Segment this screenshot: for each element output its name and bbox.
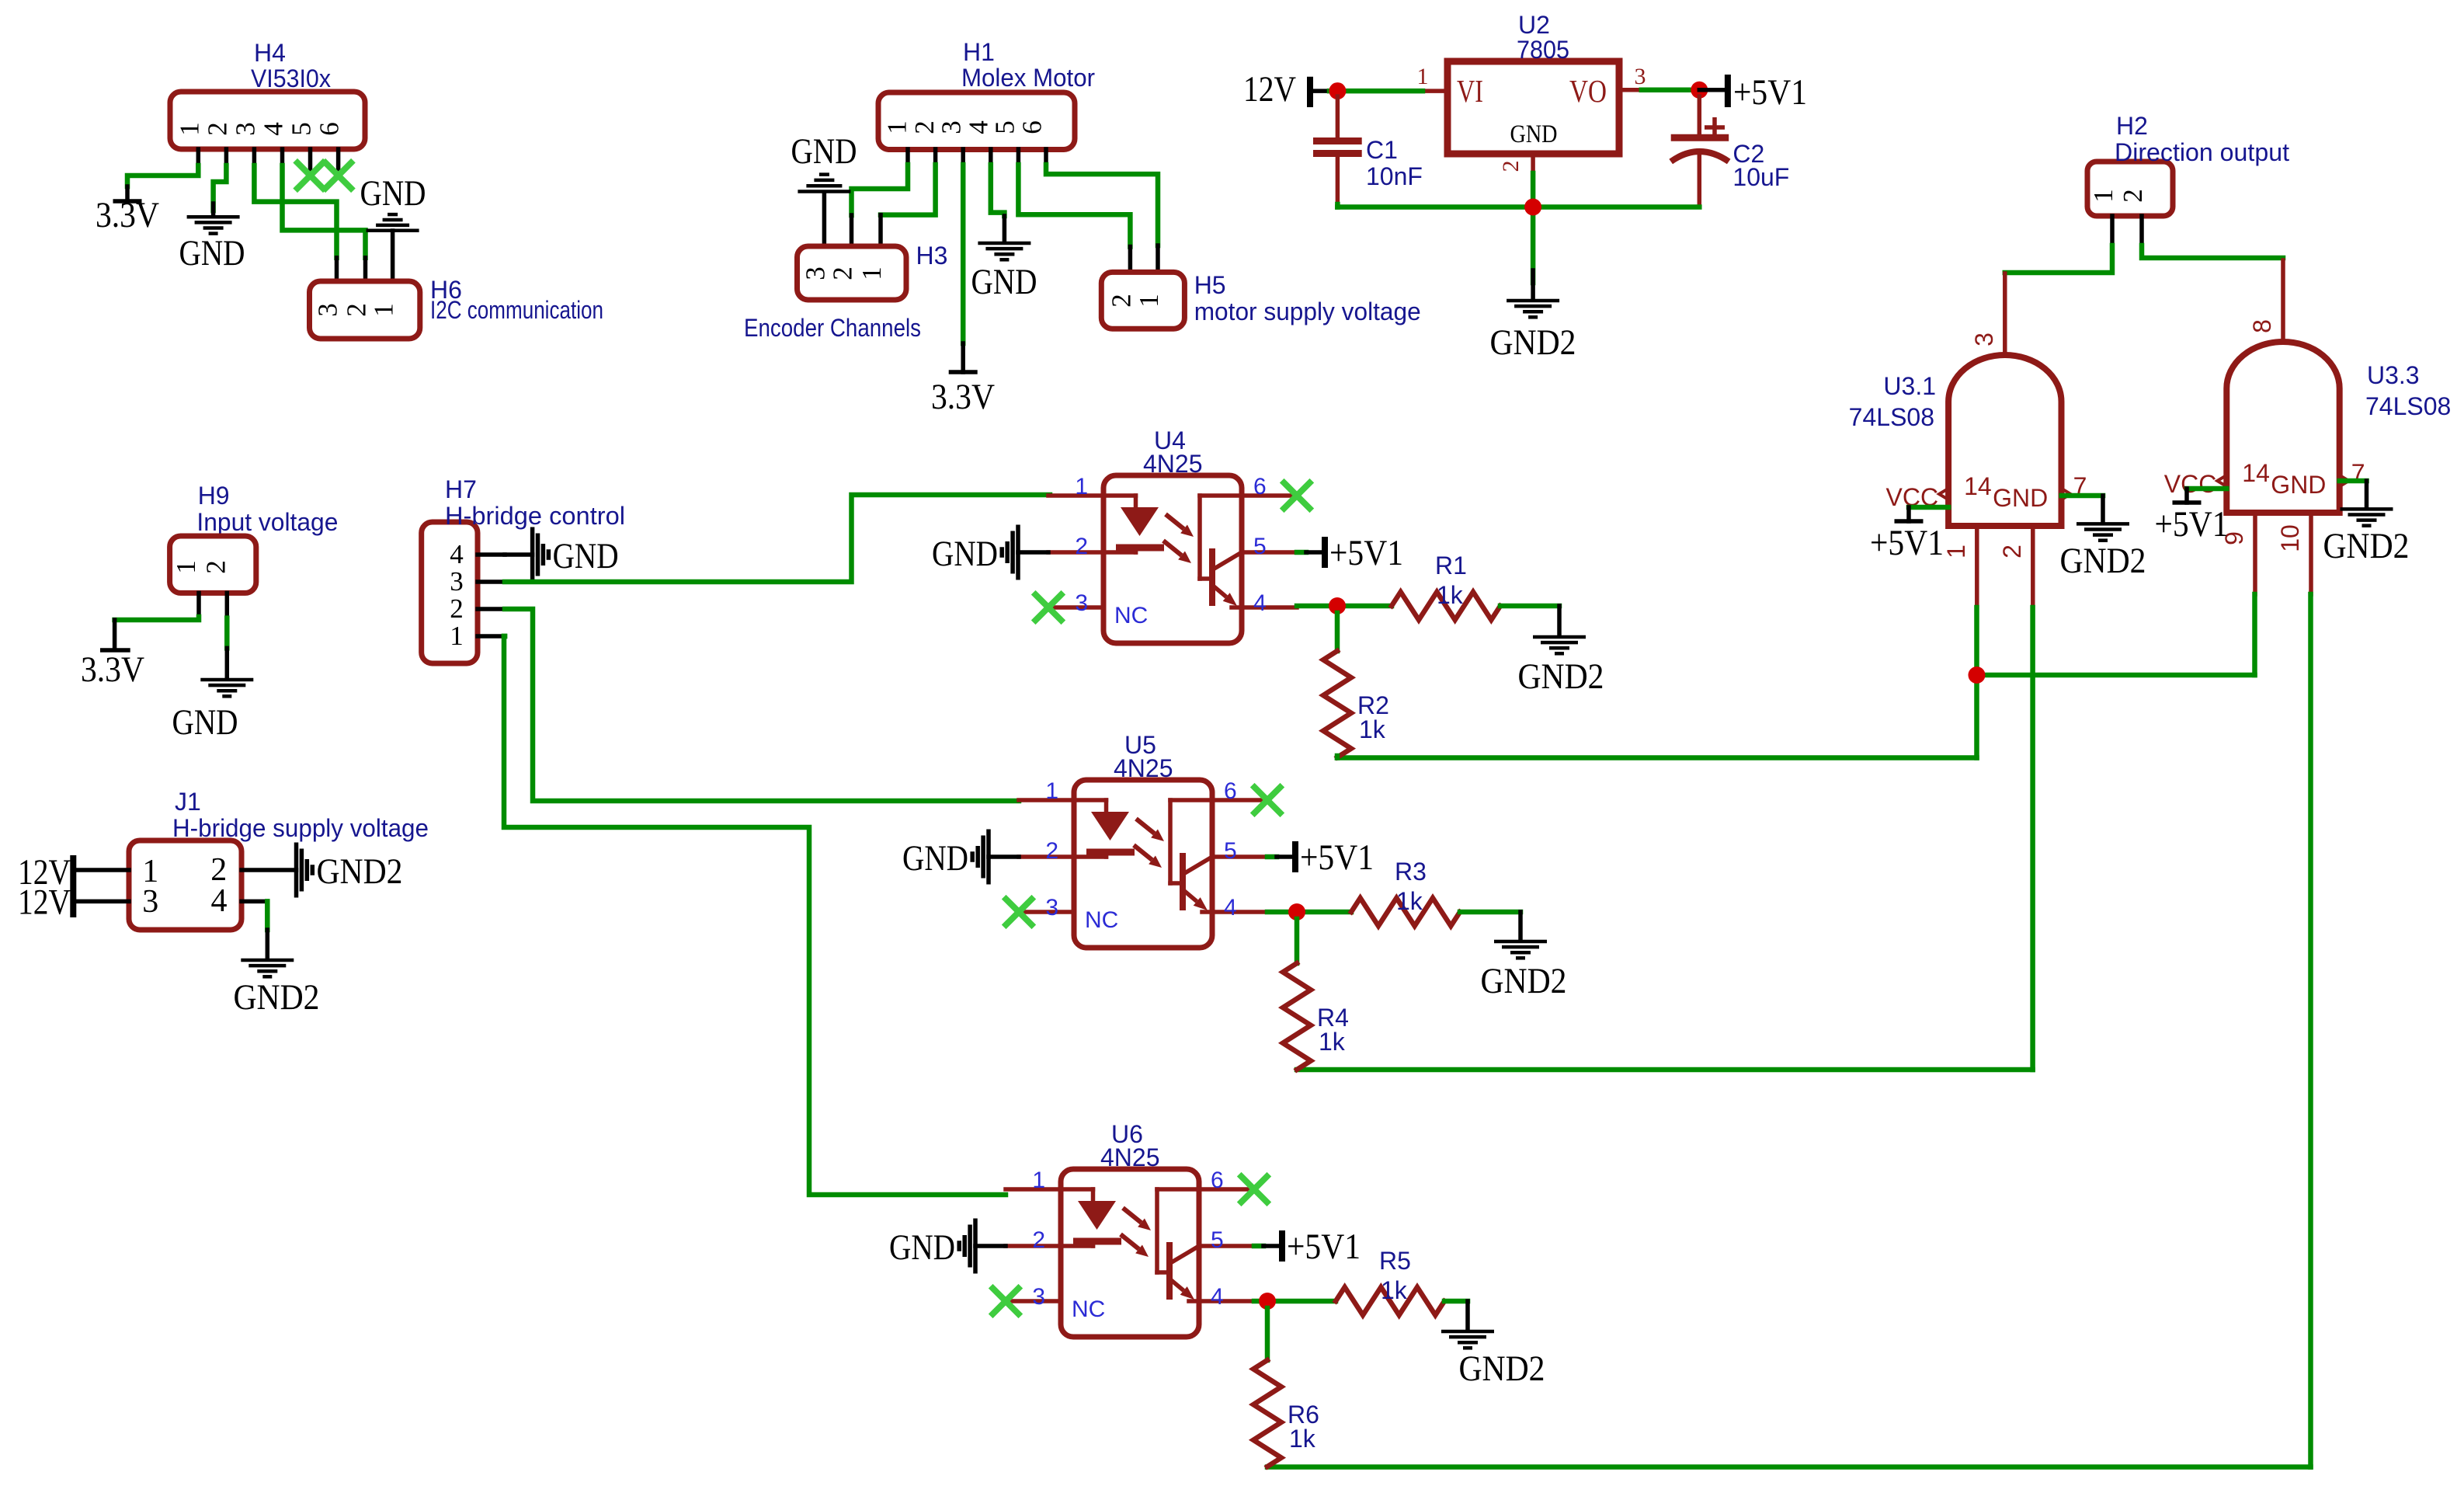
- svg-text:2: 2: [828, 266, 858, 280]
- svg-text:5: 5: [287, 122, 317, 136]
- svg-text:VO: VO: [1569, 73, 1607, 109]
- svg-text:2: 2: [2118, 189, 2148, 203]
- svg-text:3.3V: 3.3V: [931, 377, 995, 417]
- svg-text:4: 4: [259, 122, 289, 136]
- svg-text:GND2: GND2: [1459, 1349, 1545, 1389]
- svg-text:VI53I0x: VI53I0x: [251, 64, 331, 92]
- svg-text:GND: GND: [2271, 471, 2326, 499]
- svg-text:GND: GND: [1510, 120, 1558, 148]
- svg-text:12V: 12V: [1243, 69, 1296, 110]
- svg-text:1k: 1k: [1396, 887, 1423, 915]
- svg-text:GND: GND: [179, 233, 245, 273]
- svg-text:2: 2: [450, 593, 464, 624]
- svg-text:NC: NC: [1085, 907, 1118, 933]
- svg-text:2: 2: [1075, 534, 1088, 559]
- svg-text:Input voltage: Input voltage: [196, 508, 338, 536]
- svg-text:5: 5: [989, 120, 1020, 134]
- svg-text:U3.3: U3.3: [2367, 361, 2420, 389]
- svg-text:+5V1: +5V1: [1870, 523, 1944, 563]
- svg-text:2: 2: [1106, 294, 1136, 308]
- svg-text:GND2: GND2: [1481, 961, 1567, 1001]
- svg-text:3.3V: 3.3V: [81, 649, 144, 690]
- svg-text:+5V1: +5V1: [1300, 837, 1374, 878]
- svg-text:3: 3: [230, 122, 260, 136]
- svg-text:GND: GND: [172, 702, 238, 743]
- svg-text:NC: NC: [1072, 1296, 1105, 1322]
- svg-text:+5V1: +5V1: [1329, 533, 1403, 573]
- svg-text:4: 4: [1211, 1284, 1224, 1310]
- svg-text:1k: 1k: [1381, 1276, 1408, 1304]
- svg-text:5: 5: [1253, 534, 1267, 559]
- svg-text:NC: NC: [1114, 603, 1148, 628]
- svg-text:+5V1: +5V1: [1287, 1227, 1361, 1267]
- svg-text:Direction output: Direction output: [2115, 138, 2289, 166]
- svg-text:1: 1: [1134, 294, 1164, 308]
- svg-text:GND2: GND2: [317, 851, 403, 892]
- svg-text:6: 6: [1017, 120, 1048, 134]
- svg-text:I2C communication: I2C communication: [430, 296, 603, 324]
- svg-text:1k: 1k: [1359, 715, 1386, 743]
- svg-text:H3: H3: [916, 242, 948, 270]
- svg-text:2: 2: [909, 120, 940, 134]
- svg-text:6: 6: [1253, 474, 1267, 499]
- svg-text:8: 8: [2248, 319, 2276, 333]
- svg-text:GND: GND: [902, 838, 968, 879]
- svg-text:7805: 7805: [1517, 36, 1569, 64]
- svg-text:6: 6: [315, 122, 345, 136]
- svg-text:U3.1: U3.1: [1883, 372, 1936, 400]
- svg-text:H9: H9: [198, 482, 230, 510]
- svg-text:+5V1: +5V1: [2155, 504, 2229, 545]
- svg-text:2: 2: [1032, 1227, 1045, 1253]
- svg-text:4: 4: [211, 883, 228, 919]
- svg-text:74LS08: 74LS08: [1849, 403, 1934, 431]
- svg-text:5: 5: [1211, 1227, 1224, 1253]
- svg-text:2: 2: [1045, 838, 1058, 864]
- svg-text:4: 4: [450, 539, 464, 569]
- svg-text:1: 1: [171, 560, 201, 574]
- svg-text:10: 10: [2276, 524, 2304, 552]
- svg-text:5: 5: [1224, 838, 1237, 864]
- svg-text:2: 2: [1998, 545, 2026, 559]
- svg-text:1: 1: [1075, 474, 1088, 499]
- svg-text:H2: H2: [2116, 112, 2148, 140]
- svg-text:GND2: GND2: [2323, 526, 2410, 566]
- svg-text:GND2: GND2: [234, 977, 320, 1018]
- svg-text:1k: 1k: [1437, 581, 1464, 609]
- svg-text:3: 3: [1032, 1284, 1045, 1310]
- svg-text:6: 6: [1224, 778, 1237, 804]
- svg-text:1: 1: [1417, 64, 1429, 89]
- svg-text:GND: GND: [1993, 484, 2048, 512]
- svg-text:14: 14: [2242, 459, 2270, 487]
- svg-text:GND: GND: [932, 534, 998, 574]
- svg-text:2: 2: [201, 560, 231, 574]
- svg-text:VI: VI: [1457, 73, 1483, 109]
- svg-text:1k: 1k: [1319, 1028, 1346, 1056]
- svg-text:1: 1: [2088, 189, 2118, 203]
- svg-text:4: 4: [1224, 895, 1237, 921]
- svg-text:J1: J1: [175, 788, 201, 816]
- svg-text:1k: 1k: [1289, 1425, 1316, 1453]
- svg-text:1: 1: [174, 122, 204, 136]
- svg-text:GND: GND: [889, 1227, 955, 1268]
- svg-text:R3: R3: [1395, 858, 1427, 886]
- svg-text:R5: R5: [1379, 1247, 1411, 1275]
- svg-text:10nF: 10nF: [1366, 162, 1423, 190]
- svg-text:H1: H1: [963, 38, 995, 66]
- svg-text:GND2: GND2: [1518, 656, 1604, 697]
- svg-text:3: 3: [142, 884, 158, 920]
- svg-text:4N25: 4N25: [1114, 754, 1173, 782]
- svg-text:Molex Motor: Molex Motor: [961, 64, 1095, 92]
- svg-text:74LS08: 74LS08: [2365, 392, 2451, 420]
- svg-text:1: 1: [857, 266, 887, 280]
- svg-text:VCC: VCC: [2164, 470, 2217, 498]
- svg-text:3: 3: [313, 303, 343, 317]
- svg-text:3: 3: [450, 566, 464, 597]
- svg-text:H7: H7: [445, 475, 477, 503]
- svg-text:+5V1: +5V1: [1733, 72, 1807, 113]
- svg-text:motor supply voltage: motor supply voltage: [1194, 298, 1421, 325]
- svg-text:3.3V: 3.3V: [96, 195, 159, 235]
- svg-text:C1: C1: [1366, 136, 1398, 164]
- svg-text:6: 6: [1211, 1168, 1224, 1193]
- svg-text:GND2: GND2: [2060, 541, 2146, 581]
- svg-text:GND: GND: [791, 131, 857, 172]
- svg-text:12V: 12V: [18, 882, 71, 922]
- svg-text:Encoder Channels: Encoder Channels: [744, 314, 921, 342]
- svg-text:1: 1: [369, 303, 399, 317]
- svg-text:3: 3: [1635, 64, 1646, 89]
- svg-text:H4: H4: [254, 39, 286, 67]
- svg-text:H5: H5: [1194, 271, 1226, 299]
- svg-text:4N25: 4N25: [1143, 450, 1203, 478]
- svg-text:2: 2: [1498, 161, 1524, 172]
- svg-text:3: 3: [936, 120, 966, 134]
- svg-text:3: 3: [1970, 332, 1998, 346]
- svg-text:4: 4: [1253, 590, 1267, 616]
- svg-text:2: 2: [342, 303, 372, 317]
- svg-text:GND: GND: [971, 262, 1037, 302]
- svg-text:1: 1: [1942, 545, 1970, 559]
- svg-text:H-bridge control: H-bridge control: [445, 502, 625, 530]
- svg-text:3: 3: [1045, 895, 1058, 921]
- svg-text:4N25: 4N25: [1100, 1143, 1160, 1171]
- svg-text:2: 2: [202, 122, 232, 136]
- svg-text:U2: U2: [1518, 11, 1550, 39]
- svg-text:GND: GND: [360, 173, 426, 214]
- svg-text:1: 1: [1045, 778, 1058, 804]
- svg-text:10uF: 10uF: [1732, 163, 1789, 191]
- svg-text:1: 1: [1032, 1168, 1045, 1193]
- svg-text:3: 3: [800, 266, 830, 280]
- svg-text:GND: GND: [553, 536, 619, 576]
- svg-text:R1: R1: [1435, 552, 1467, 579]
- svg-text:1: 1: [882, 120, 912, 134]
- svg-text:GND2: GND2: [1490, 322, 1576, 363]
- svg-text:1: 1: [450, 621, 464, 651]
- svg-text:14: 14: [1964, 472, 1992, 500]
- svg-text:3: 3: [1075, 590, 1088, 616]
